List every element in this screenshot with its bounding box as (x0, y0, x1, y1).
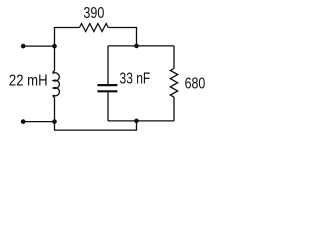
wire 680 lower lead (173, 97, 175, 121)
resistor R-390 zigzag (80, 24, 109, 32)
terminal dot top-left (21, 44, 26, 49)
svg-text:33 nF: 33 nF (120, 70, 151, 87)
wire top node line (capacitor top to 680 top) (108, 45, 174, 47)
svg-text:390: 390 (83, 5, 104, 22)
resistor R-680 zigzag (170, 68, 177, 97)
junction dot node B bottom (134, 119, 139, 124)
junction dot node A top (52, 44, 57, 49)
junction dot node B top (134, 44, 139, 49)
svg-text:680: 680 (185, 75, 206, 92)
junction dot node A bottom (52, 119, 57, 124)
wire top rail right segment and drop to node B (108, 28, 136, 46)
wire bottom node line (capacitor bottom to 680 bottom) (108, 120, 174, 122)
wire capacitor lower lead (107, 92, 109, 121)
terminal dot bottom-left (21, 119, 26, 124)
svg-text:22 mH: 22 mH (9, 72, 48, 89)
wire bottom input lead (23, 121, 54, 123)
wire 680 upper lead (173, 46, 175, 69)
wire inductor upper lead (54, 46, 56, 71)
wire bottom rail (left branch to bottom node) (55, 121, 137, 130)
wire left riser and top rail left segment (55, 28, 80, 47)
capacitor C-33nF plates (97, 85, 117, 91)
wire inductor lower lead (54, 98, 56, 122)
wire capacitor upper lead (107, 46, 109, 84)
wire top input lead (23, 45, 54, 47)
inductor L-22mH coil (53, 71, 59, 98)
